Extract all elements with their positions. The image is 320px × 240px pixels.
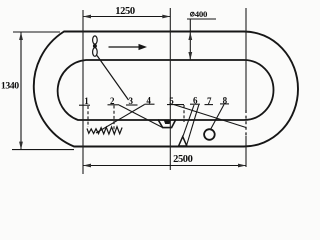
dimension phi400 leader underline <box>187 18 216 20</box>
dimension 2500 right arrow <box>238 164 246 168</box>
label 5 underline <box>167 104 184 106</box>
construction line left <box>82 10 84 174</box>
dimension 1340 top extension <box>13 31 60 33</box>
svg-text:400: 400 <box>195 9 208 19</box>
dimension 1250 right arrow <box>162 15 170 19</box>
label 4 underline <box>145 103 155 105</box>
label 6 leader to triangle <box>183 105 194 137</box>
propeller symbol <box>93 36 98 56</box>
dimension phi400 up arrow <box>188 32 192 40</box>
label 2 underline <box>108 104 120 106</box>
outer pond wall <box>34 32 298 147</box>
dimension 1250 left arrow <box>83 15 91 19</box>
propeller leader to label 3 <box>97 56 129 101</box>
funnel inner cup <box>164 120 171 124</box>
label 3 underline <box>126 104 138 106</box>
svg-text:1: 1 <box>84 96 89 106</box>
svg-text:2500: 2500 <box>173 154 193 165</box>
label 8 underline <box>220 103 229 105</box>
dimension phi400 drop line <box>189 19 191 60</box>
zigzag screen <box>87 127 122 134</box>
label 2 dashed drop <box>113 106 115 131</box>
triangle symbol <box>179 137 187 146</box>
dimension 1340 bottom extension <box>12 149 74 151</box>
construction line right dashed part <box>245 110 247 136</box>
dimension 1340 down arrow <box>19 142 23 150</box>
dimension 2500 line <box>83 165 246 167</box>
dimension 1340 line <box>20 32 22 150</box>
flow arrow <box>109 46 141 48</box>
funnel outlet <box>158 120 176 128</box>
construction line right lower part <box>245 136 247 167</box>
long diagonal leader to right wall <box>174 105 246 128</box>
circle symbol <box>204 129 215 140</box>
label 1 dashed drop <box>87 106 89 127</box>
label 7 underline <box>205 104 214 106</box>
label 7 leader to triangle base <box>187 105 199 146</box>
label 6 underline <box>190 103 200 105</box>
dimension phi400 down arrow <box>188 52 192 60</box>
label 4 leader to screen <box>96 105 145 134</box>
dimension phi400 circle symbol <box>190 12 194 16</box>
label 8 leader to circle <box>211 105 225 130</box>
label 2 leader to funnel <box>119 105 163 128</box>
dimension 1250 line <box>83 16 170 18</box>
construction line right <box>245 8 247 110</box>
svg-text:1340: 1340 <box>1 81 19 92</box>
label 5 dashed drop <box>183 105 185 122</box>
construction line center <box>169 8 171 170</box>
svg-text:1250: 1250 <box>115 6 135 17</box>
dimension 2500 left arrow <box>83 164 91 168</box>
inner island wall <box>58 60 274 120</box>
dimension 1340 up arrow <box>19 32 23 40</box>
label 1 underline <box>79 104 90 106</box>
